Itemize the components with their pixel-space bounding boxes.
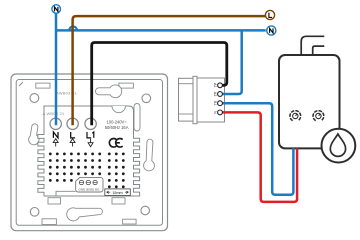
svg-text:GND (ESD) DG: GND (ESD) DG	[79, 187, 101, 191]
connector housing ridge bottom	[179, 113, 194, 115]
connector left housing	[179, 78, 194, 121]
side wing right	[144, 139, 155, 171]
svg-text:A1: A1	[213, 83, 217, 88]
label N	[53, 132, 58, 138]
switch plate inner frame	[16, 80, 162, 226]
arrow up under N	[53, 139, 58, 147]
svg-text:B1: B1	[213, 101, 217, 106]
label L	[71, 132, 75, 138]
node N top-right	[267, 26, 276, 35]
connector main body	[197, 78, 225, 122]
svg-text:AWB03 B1: AWB03 B1	[56, 91, 78, 96]
svg-text:15mm: 15mm	[112, 191, 122, 195]
boiler flue pipe outer	[301, 36, 324, 55]
15mm arrows and text	[107, 191, 129, 193]
CE mark	[109, 139, 122, 148]
wire: blue branch down to connector screw 2	[222, 30, 241, 94]
wire hop over brown	[69, 26, 77, 30]
screw hole top-right	[142, 94, 151, 103]
inner frame corner chamfer	[19, 82, 23, 86]
wire: brown live from terminal L to circle L	[73, 16, 266, 125]
bottom mounting tab left	[48, 198, 61, 204]
side wing left	[29, 124, 39, 145]
GND box step line	[56, 191, 76, 196]
node L top-right	[265, 10, 274, 19]
wire: blue mains N horizontal with hop over brown	[56, 29, 266, 32]
connector screw 2	[218, 92, 223, 97]
boiler body	[279, 55, 340, 148]
svg-text:50/60Hz 16A: 50/60Hz 16A	[105, 125, 129, 130]
water drop	[330, 134, 345, 156]
knob left	[290, 111, 301, 121]
U-notch in mech top edge	[112, 106, 125, 113]
screw hole top-left	[30, 94, 39, 103]
connector screw 4	[218, 110, 223, 115]
arrow up under L	[70, 139, 75, 147]
connector screw 1	[218, 83, 223, 88]
top mounting tab left	[36, 83, 50, 88]
connector housing ridge top	[179, 83, 194, 85]
terminal N	[50, 118, 61, 129]
terminal L	[67, 118, 78, 129]
switch back plate outer frame	[11, 74, 168, 231]
GND box	[76, 177, 103, 192]
connector flange	[193, 76, 197, 123]
GND screw 3	[93, 180, 97, 184]
bottom mounting tab right	[112, 198, 125, 204]
15mm dimension strip	[105, 189, 131, 196]
top mounting tab right	[119, 83, 133, 88]
wire: blue valve wire connector screw 3 to boiler	[222, 103, 293, 195]
top bone slot	[96, 85, 122, 98]
screw hole bottom-left	[30, 208, 39, 217]
switch mechanism box with heat-sink teeth	[38, 106, 140, 196]
wire: blue N drop from top-left circle to terminal N	[55, 13, 58, 125]
water drop badge	[322, 129, 356, 163]
GND screw 1	[79, 180, 83, 184]
svg-text:100-240V~: 100-240V~	[107, 120, 128, 125]
GND screw 2	[86, 180, 90, 184]
arrow down under L1	[88, 139, 93, 147]
svg-text:A2: A2	[213, 92, 217, 97]
node N top-left	[52, 5, 61, 14]
tall clip tab on mech right edge	[134, 104, 140, 132]
bottom bone slot	[67, 208, 103, 221]
svg-text:A WB03 21: A WB03 21	[43, 111, 65, 116]
terminal L1	[85, 118, 96, 129]
svg-text:N: N	[213, 111, 217, 114]
lower-left frame cutout	[42, 219, 56, 225]
wire: black switched live L1 to connector screw 1	[92, 43, 227, 126]
knob right	[313, 111, 324, 121]
wire: red valve wire connector screw 4 to boiler	[222, 112, 297, 201]
connector screw 3	[218, 101, 223, 106]
label L1	[87, 132, 94, 138]
lower-right frame cutout	[123, 219, 137, 224]
screw hole bottom-right	[141, 206, 150, 215]
boiler flue pipe inner	[313, 46, 325, 55]
ventilation dot grid	[49, 153, 125, 189]
